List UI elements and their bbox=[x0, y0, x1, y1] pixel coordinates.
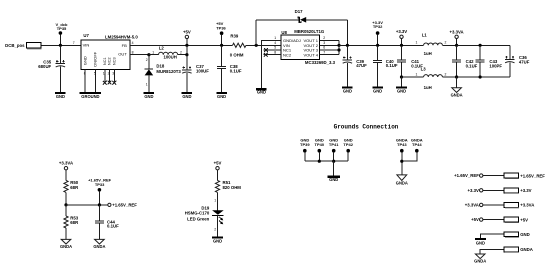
svg-text:GND: GND bbox=[373, 89, 382, 94]
node C43 bottom junction bbox=[479, 75, 482, 78]
svg-text:TP41: TP41 bbox=[329, 142, 339, 147]
svg-text:0.1UF: 0.1UF bbox=[386, 63, 398, 68]
node VOUT bus junction 2 bbox=[337, 48, 340, 51]
capacitor C43 100PF bbox=[476, 45, 503, 77]
svg-text:820 OHM: 820 OHM bbox=[223, 185, 242, 190]
node bus TP40 bbox=[318, 160, 321, 163]
svg-text:OUT: OUT bbox=[118, 51, 127, 56]
port DCB_pos bbox=[5, 43, 41, 49]
capacitor C36 47UF bbox=[505, 45, 530, 77]
wire TP43 down bbox=[401, 152, 403, 175]
svg-text:8: 8 bbox=[132, 51, 134, 55]
svg-text:8: 8 bbox=[274, 50, 276, 54]
node divider junction bbox=[64, 203, 67, 206]
svg-text:VOUT 4: VOUT 4 bbox=[303, 52, 318, 57]
svg-text:1: 1 bbox=[146, 82, 148, 86]
wire D17 left leg bbox=[255, 20, 257, 46]
ground GND (C41) bbox=[396, 87, 407, 94]
ground GND (C37) bbox=[182, 92, 193, 99]
svg-text:ON/OFF: ON/OFF bbox=[92, 51, 97, 67]
svg-text:0.1UF: 0.1UF bbox=[466, 63, 478, 68]
svg-text:LM2594HVM-5.0: LM2594HVM-5.0 bbox=[105, 35, 138, 40]
node TP32 junction bbox=[376, 44, 379, 47]
wire R53 upper lead bbox=[65, 205, 67, 216]
svg-text:TP42: TP42 bbox=[343, 142, 353, 147]
svg-text:TP36: TP36 bbox=[216, 25, 226, 30]
testpoint TP44 GNDA bbox=[411, 138, 423, 153]
diode D18 MUR8120T3 bbox=[145, 53, 182, 92]
ground GNDA (testpoints) bbox=[396, 175, 408, 186]
testpoint TP39 GND bbox=[300, 138, 310, 162]
svg-text:0 OHM: 0 OHM bbox=[230, 53, 244, 58]
node +3.3VA net flag bbox=[465, 203, 483, 208]
svg-text:DCB_pos: DCB_pos bbox=[5, 43, 25, 48]
wire D17 top left segment bbox=[256, 19, 299, 21]
svg-text:D18: D18 bbox=[156, 63, 164, 68]
testpoint TP43 GNDA bbox=[396, 138, 408, 153]
resistor R51 820 OHM bbox=[215, 180, 241, 192]
testpoint TP32 +3.3V bbox=[372, 20, 383, 46]
svg-text:+3.3V: +3.3V bbox=[520, 188, 531, 193]
svg-text:TP40: TP40 bbox=[315, 142, 325, 147]
ground GNDA (C44) bbox=[93, 239, 105, 249]
power +3.3V bbox=[396, 29, 407, 46]
capacitor C41 0.1UF bbox=[397, 45, 423, 77]
wire U7 OUT to D18 node bbox=[130, 54, 149, 56]
ground GROUND bar (U7) bbox=[79, 92, 101, 99]
svg-text:GND: GND bbox=[82, 56, 87, 65]
svg-text:1uH: 1uH bbox=[424, 85, 432, 90]
node V_dcb junction bbox=[59, 44, 62, 47]
wire TP44 elbow bbox=[402, 152, 417, 161]
svg-text:+3.3VA: +3.3VA bbox=[450, 30, 464, 35]
testpoint TP40 GND bbox=[315, 138, 325, 162]
svg-text:3: 3 bbox=[323, 41, 325, 45]
svg-text:GND: GND bbox=[56, 94, 65, 99]
inductor L2 100UH bbox=[149, 46, 187, 60]
power +3.3VA (divider) bbox=[59, 161, 73, 181]
testpoint TP36 +5V bbox=[216, 21, 226, 46]
svg-text:GNDA: GNDA bbox=[520, 247, 533, 252]
svg-text:VIN: VIN bbox=[83, 43, 90, 48]
svg-text:+5V: +5V bbox=[183, 30, 191, 35]
wire DCB_pos to U7 VIN bbox=[42, 44, 81, 46]
svg-text:NC1: NC1 bbox=[103, 57, 107, 65]
capacitor C39 47UF bbox=[343, 45, 367, 86]
svg-text:Grounds Connection: Grounds Connection bbox=[334, 124, 399, 131]
wire bus to GND bbox=[333, 161, 335, 176]
node C41 bottom junction bbox=[400, 75, 403, 78]
capacitor C35 680UF bbox=[38, 45, 65, 92]
wire D17 top right segment bbox=[306, 19, 348, 21]
ground GND (C35) bbox=[55, 92, 66, 99]
svg-text:L1: L1 bbox=[422, 32, 428, 37]
svg-text:2: 2 bbox=[146, 58, 148, 62]
svg-text:MUR8120T3: MUR8120T3 bbox=[156, 69, 181, 74]
svg-text:TP32: TP32 bbox=[373, 24, 383, 29]
svg-text:GNDA: GNDA bbox=[474, 259, 486, 264]
svg-text:TP44: TP44 bbox=[412, 142, 422, 147]
pin NC3 no-connect U7 bbox=[112, 69, 116, 84]
svg-text:1: 1 bbox=[416, 41, 418, 45]
node C39 junction bbox=[346, 44, 349, 47]
capacitor C37 100UF bbox=[182, 55, 209, 92]
ground GND (C38) bbox=[216, 92, 227, 99]
ground GNDA (C42) bbox=[451, 88, 463, 98]
pin NC2 no-connect U8 bbox=[264, 53, 282, 57]
ground GND (testpoints) bbox=[328, 176, 340, 183]
capacitor C42 0.1UF bbox=[452, 45, 478, 77]
svg-text:1: 1 bbox=[416, 72, 418, 76]
inductor L3 1uH bbox=[416, 66, 457, 89]
svg-text:+5V: +5V bbox=[214, 161, 222, 166]
ground GND (C39) bbox=[342, 87, 353, 94]
svg-text:GROUND: GROUND bbox=[81, 94, 99, 99]
svg-text:GNDA: GNDA bbox=[396, 180, 408, 185]
wire R50 to node bbox=[65, 192, 67, 205]
wire U7 pin5 ON/OFF down bbox=[94, 69, 96, 91]
svg-text:4: 4 bbox=[132, 41, 134, 45]
svg-text:GND: GND bbox=[397, 89, 406, 94]
svg-text:TP39: TP39 bbox=[300, 142, 310, 147]
node C43 top junction bbox=[479, 44, 482, 47]
svg-text:4: 4 bbox=[274, 41, 276, 45]
node +1.65V_REF net bbox=[108, 203, 137, 208]
svg-text:TP43: TP43 bbox=[397, 142, 407, 147]
power +5V (LED) bbox=[214, 161, 222, 181]
svg-text:1: 1 bbox=[274, 36, 276, 40]
svg-text:68R: 68R bbox=[70, 185, 79, 190]
wire GND flag to port bbox=[480, 234, 504, 238]
pin NC1 no-connect U8 bbox=[264, 48, 282, 52]
svg-text:GND: GND bbox=[144, 94, 153, 99]
wire U8 GND/ADJ pin1 bbox=[261, 40, 281, 88]
svg-text:U8: U8 bbox=[281, 30, 287, 35]
svg-text:+3.3V: +3.3V bbox=[468, 188, 479, 193]
testpoint TP41 GND bbox=[329, 138, 339, 162]
diode D17 MBR0520LT1G schottky bbox=[295, 9, 307, 23]
svg-text:5: 5 bbox=[274, 46, 276, 50]
node +3.3VA junction bbox=[455, 44, 458, 47]
node TP43 TP44 junction bbox=[400, 160, 403, 163]
wire net to port bbox=[483, 189, 504, 191]
capacitor C38 0.1UF bbox=[217, 45, 242, 92]
ground GND (port flag) bbox=[475, 238, 486, 246]
svg-text:GND: GND bbox=[520, 232, 530, 237]
node bus TP41 bbox=[332, 160, 335, 163]
svg-text:2: 2 bbox=[180, 51, 182, 55]
port GND bbox=[504, 232, 530, 238]
svg-text:GNDA: GNDA bbox=[60, 244, 72, 249]
svg-text:NC2: NC2 bbox=[283, 52, 292, 57]
svg-text:GND: GND bbox=[329, 177, 338, 182]
wire GNDA flag to port bbox=[480, 250, 504, 255]
svg-text:1uH: 1uH bbox=[424, 51, 432, 56]
svg-text:1: 1 bbox=[152, 51, 154, 55]
svg-text:GND: GND bbox=[343, 89, 352, 94]
power +5V bbox=[183, 30, 191, 46]
ground GND (D19) bbox=[212, 237, 223, 244]
svg-text:+5V: +5V bbox=[520, 217, 528, 222]
svg-text:+1.65V_REF: +1.65V_REF bbox=[112, 203, 137, 208]
svg-text:100UH: 100UH bbox=[164, 55, 177, 60]
capacitor C44 0.1UF bbox=[95, 205, 119, 240]
testpoint TP42 GND bbox=[343, 138, 353, 162]
svg-text:+5V: +5V bbox=[471, 217, 479, 222]
svg-text:100UF: 100UF bbox=[196, 69, 209, 74]
svg-text:7: 7 bbox=[73, 41, 75, 45]
wire bottom rail to C36 bbox=[457, 76, 510, 78]
svg-text:2: 2 bbox=[445, 41, 447, 45]
svg-text:L2: L2 bbox=[159, 46, 165, 51]
port +1.65V_REF bbox=[504, 173, 545, 179]
svg-text:2: 2 bbox=[445, 72, 447, 76]
wire FB rail U7 to R39 bbox=[130, 44, 233, 46]
wire top rail to C36 bbox=[457, 44, 510, 46]
testpoint TP33 +1.65V_REF bbox=[88, 178, 112, 205]
svg-text:0.1UF: 0.1UF bbox=[230, 69, 242, 74]
ground GNDA (port flag) bbox=[474, 254, 486, 264]
svg-text:GND: GND bbox=[213, 239, 222, 244]
wire net to port bbox=[483, 219, 504, 221]
regulator IC U8 MC33269D_3.3 bbox=[274, 29, 335, 65]
wire net to port bbox=[483, 175, 504, 177]
wire net to port bbox=[483, 204, 504, 206]
regulator IC U7 LM2594HVM-5.0 bbox=[73, 33, 139, 75]
wire R51 to D19 bbox=[217, 192, 219, 210]
ground GND (U8) bbox=[256, 88, 267, 94]
ground GND (D18) bbox=[144, 92, 155, 99]
wire +3.3V rail bbox=[339, 44, 424, 46]
wire U7 pin6 GND down bbox=[84, 69, 86, 91]
ground GNDA (R53) bbox=[60, 239, 72, 249]
inductor L1 1uH bbox=[416, 32, 457, 56]
svg-text:FB: FB bbox=[122, 43, 127, 48]
svg-text:TP35: TP35 bbox=[57, 26, 67, 31]
resistor R39 0 OHM bbox=[230, 33, 246, 57]
node TP33 junction bbox=[98, 203, 101, 206]
svg-text:MC33269D_3.3: MC33269D_3.3 bbox=[305, 60, 336, 65]
wire GND testpoint bus bbox=[305, 160, 348, 162]
port GNDA bbox=[504, 247, 533, 253]
wire +5V node down to L2 bbox=[186, 45, 188, 54]
node +1.65V_REF net flag bbox=[454, 173, 483, 178]
port +3.3V bbox=[504, 188, 531, 194]
node C42 bottom junction bbox=[455, 75, 458, 78]
node VOUT bus junction 1 bbox=[337, 44, 340, 47]
svg-text:HSMG-C170: HSMG-C170 bbox=[185, 210, 210, 215]
wire D17 right leg bbox=[346, 20, 348, 46]
node +5V net flag bbox=[471, 217, 483, 222]
svg-text:L3: L3 bbox=[421, 66, 427, 71]
LED D19 HSMG-C170 green bbox=[185, 198, 224, 231]
port +3.3VA bbox=[504, 202, 534, 208]
testpoint TP35 V_dcb bbox=[55, 22, 68, 46]
node TP36 junction bbox=[220, 44, 223, 47]
svg-text:1: 1 bbox=[214, 198, 216, 202]
svg-text:GND: GND bbox=[257, 90, 266, 95]
wire divider to net label bbox=[66, 204, 108, 206]
node L2 out junction bbox=[185, 53, 188, 56]
svg-text:47UF: 47UF bbox=[519, 60, 530, 65]
pin NC1 no-connect U7 bbox=[103, 69, 107, 84]
svg-text:100PF: 100PF bbox=[489, 63, 502, 68]
svg-text:+3.3V: +3.3V bbox=[396, 29, 407, 34]
svg-text:TP33: TP33 bbox=[95, 182, 105, 187]
wire GNDA drop bbox=[456, 77, 458, 88]
svg-text:GNDA: GNDA bbox=[93, 244, 105, 249]
port +5V bbox=[504, 217, 528, 223]
svg-text:7: 7 bbox=[323, 50, 325, 54]
node +3.3V junction bbox=[400, 44, 403, 47]
wire U8 VOUT bus bbox=[320, 40, 340, 54]
svg-text:68R: 68R bbox=[70, 220, 79, 225]
node +5V junction bbox=[185, 44, 188, 47]
svg-text:+1.65V_REF: +1.65V_REF bbox=[520, 173, 545, 178]
svg-text:NC3: NC3 bbox=[112, 57, 116, 65]
svg-text:D17: D17 bbox=[295, 9, 303, 14]
resistor R50 68R bbox=[64, 180, 79, 192]
pin NC2 no-connect U7 bbox=[108, 69, 112, 84]
svg-text:GND: GND bbox=[182, 94, 191, 99]
svg-text:6: 6 bbox=[323, 46, 325, 50]
svg-text:GND: GND bbox=[217, 94, 226, 99]
wire D19 to GND bbox=[217, 216, 219, 237]
wire bottom analog rail left bbox=[402, 76, 424, 78]
svg-text:MBR0520LT1G: MBR0520LT1G bbox=[294, 29, 325, 34]
wire R39 to U8 VIN bbox=[246, 44, 281, 46]
svg-text:2: 2 bbox=[323, 36, 325, 40]
svg-text:+3.3VA: +3.3VA bbox=[59, 161, 73, 166]
ground GND (C40) bbox=[372, 87, 383, 94]
svg-text:LED Green: LED Green bbox=[187, 217, 210, 222]
wire C41 to GND bbox=[401, 77, 403, 87]
svg-text:+3.3VA: +3.3VA bbox=[465, 203, 479, 208]
capacitor C40 0.1UF bbox=[373, 45, 398, 86]
node +3.3V net flag bbox=[468, 188, 483, 193]
svg-text:GND: GND bbox=[476, 241, 485, 246]
svg-text:+3.3VA: +3.3VA bbox=[520, 203, 534, 208]
svg-text:2: 2 bbox=[214, 228, 216, 232]
svg-text:47UF: 47UF bbox=[356, 63, 367, 68]
resistor R53 68R bbox=[64, 216, 79, 228]
svg-text:GNDA: GNDA bbox=[451, 92, 463, 97]
svg-text:+1.65V_REF: +1.65V_REF bbox=[454, 173, 479, 178]
svg-text:NC2: NC2 bbox=[108, 57, 112, 65]
title Grounds Connection bbox=[334, 124, 399, 131]
power +3.3VA bbox=[450, 30, 464, 46]
wire R53 to GNDA bbox=[65, 228, 67, 239]
svg-text:R39: R39 bbox=[230, 33, 238, 38]
svg-text:U7: U7 bbox=[83, 33, 89, 38]
svg-text:680UF: 680UF bbox=[38, 64, 51, 69]
node D17 left junction bbox=[255, 44, 258, 47]
svg-text:0.1UF: 0.1UF bbox=[107, 224, 119, 229]
